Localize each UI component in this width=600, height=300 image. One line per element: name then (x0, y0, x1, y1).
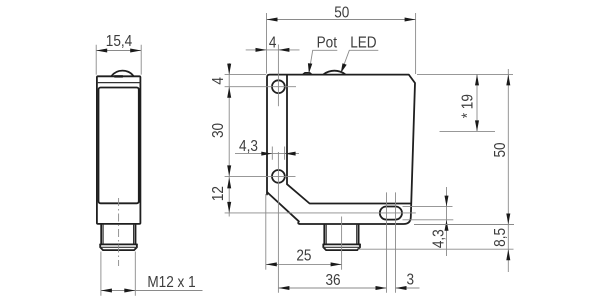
dimension 3 arrow (outside) (396, 286, 407, 290)
svg-text:30: 30 (210, 123, 227, 138)
dimension 15,4 extension lines (96, 45, 141, 75)
svg-text:4: 4 (269, 35, 277, 52)
mounting slot (oval) (380, 207, 402, 220)
dimension 4,3 hole: extension stubs (272, 147, 284, 160)
front view LED dome (324, 71, 346, 75)
svg-text:* 19: * 19 (460, 94, 477, 118)
front connector step line (323, 243, 360, 245)
dimension M12x1 arrow left (101, 289, 112, 293)
side view connector neck (101, 225, 135, 245)
front connector flange inner line (323, 246, 360, 248)
svg-text:4,3: 4,3 (431, 229, 448, 248)
extension line hole1 center (225, 86, 296, 88)
dimension 50 top extension lines (267, 13, 416, 74)
dimension *19 arrow down (475, 120, 479, 131)
extension line slot axis (long) (225, 212, 416, 214)
hole top vertical centerline / 4 extension (277, 45, 279, 107)
LED leader underline (341, 50, 378, 72)
LED leader arrow (341, 63, 347, 73)
mounting hole bottom (272, 170, 285, 183)
Pot leader underline (309, 50, 337, 72)
dimension 15,4 arrow right (130, 49, 141, 53)
front connector neck inner edges (326, 225, 357, 245)
extension line top edge (225, 74, 266, 76)
dimension 25 line (266, 263, 342, 265)
side view centerline (118, 198, 120, 266)
svg-text:15,4: 15,4 (106, 33, 132, 50)
dimension 50/8,5 right vertical line (507, 69, 509, 272)
dimension 4,3 right line (446, 187, 448, 256)
side view connector neck inner edges (103, 225, 134, 245)
extension line top right (417, 73, 513, 75)
front connector neck (324, 225, 358, 245)
svg-text:4: 4 (210, 77, 227, 85)
svg-text:3: 3 (407, 271, 415, 288)
left dim column vertical line (228, 63, 230, 217)
hole2 vertical centerline / 36 extension (277, 152, 279, 293)
dimension 25 arrow left (266, 262, 277, 266)
side view connector step line (100, 243, 137, 245)
slot bottom extension (403, 219, 454, 221)
side view body outline (97, 76, 140, 224)
dimension M12x1 line (101, 290, 203, 292)
dimension 25 extension right (connector center) (341, 217, 343, 270)
extension line hole2 center (225, 175, 296, 177)
dimension 4 top arrow right (outside) (278, 48, 289, 52)
left column arrow up at hole2 (12 top) (227, 177, 231, 188)
svg-text:LED: LED (350, 34, 376, 51)
front view body outline (267, 75, 415, 224)
slot top extension (403, 206, 453, 208)
extension line body bottom right (414, 224, 514, 226)
dimension 4,3 right arrow down (outside) (445, 196, 449, 207)
dimension M12x1 extension lines (101, 252, 135, 296)
dimension M12x1 arrow right (124, 289, 135, 293)
dimension 4,3 hole line (235, 153, 299, 155)
dimension 25 extension left (265, 194, 267, 270)
svg-text:8,5: 8,5 (492, 228, 509, 247)
dimension 50 top arrow left (267, 18, 278, 22)
left column arrow up at slot axis (227, 202, 231, 213)
dimension 8,5 arrow up (outside below) (506, 249, 510, 260)
dimension 4 top arrow left (outside) (256, 48, 267, 52)
side view lens dome (112, 71, 134, 76)
svg-text:50: 50 (492, 142, 509, 157)
dimension 50 right arrow up (506, 74, 510, 85)
dimension 50 top line (267, 19, 416, 21)
dimension 36/3 extension lines (387, 192, 396, 292)
dimension 4,3 right arrow up (outside) (445, 220, 449, 231)
dimension 50 top arrow right (405, 18, 416, 22)
side view connector flange (100, 244, 137, 250)
left column arrow up at hole1 (227, 87, 231, 98)
left column arrow down at top edge (227, 64, 231, 75)
mounting hole top (272, 80, 285, 93)
dimension 36 arrow left (278, 286, 289, 290)
optical axis line (19 ref) (440, 130, 496, 132)
dimension 25 arrow right (331, 262, 342, 266)
left column arrow down at hole2 (227, 165, 231, 176)
dimension 50 right arrow down (506, 214, 510, 225)
dimension 36 line (278, 287, 386, 289)
svg-text:4,3: 4,3 (239, 138, 258, 155)
svg-text:25: 25 (296, 247, 311, 264)
dimension *19 line (476, 74, 478, 131)
svg-text:12: 12 (210, 186, 227, 201)
front connector flange (323, 244, 360, 250)
side view cap line (97, 82, 140, 84)
svg-text:50: 50 (334, 5, 349, 22)
extension line connector flange bottom (358, 248, 514, 250)
dimension 15,4 arrow left (96, 49, 107, 53)
side view inner front panel (99, 88, 139, 204)
dimension 3 line (right part) (396, 287, 420, 289)
dimension 4 top line (246, 49, 300, 51)
svg-text:Pot: Pot (317, 34, 338, 51)
Pot leader arrow (308, 63, 312, 73)
side view pot tick (hidden edge under dome) (114, 75, 123, 77)
svg-text:36: 36 (325, 272, 340, 289)
dimension *19 arrow up (475, 74, 479, 85)
dimension 36 arrow right (376, 286, 387, 290)
front view inner contour (287, 76, 411, 204)
side view connector flange inner line (100, 246, 137, 248)
dimension 4,3 arrow right (outside) (285, 152, 296, 156)
dimension 15,4 line (96, 50, 141, 52)
dimension 4,3 arrow left (outside) (261, 152, 272, 156)
svg-text:M12 x 1: M12 x 1 (147, 274, 195, 291)
front view pot bump (303, 73, 311, 74)
